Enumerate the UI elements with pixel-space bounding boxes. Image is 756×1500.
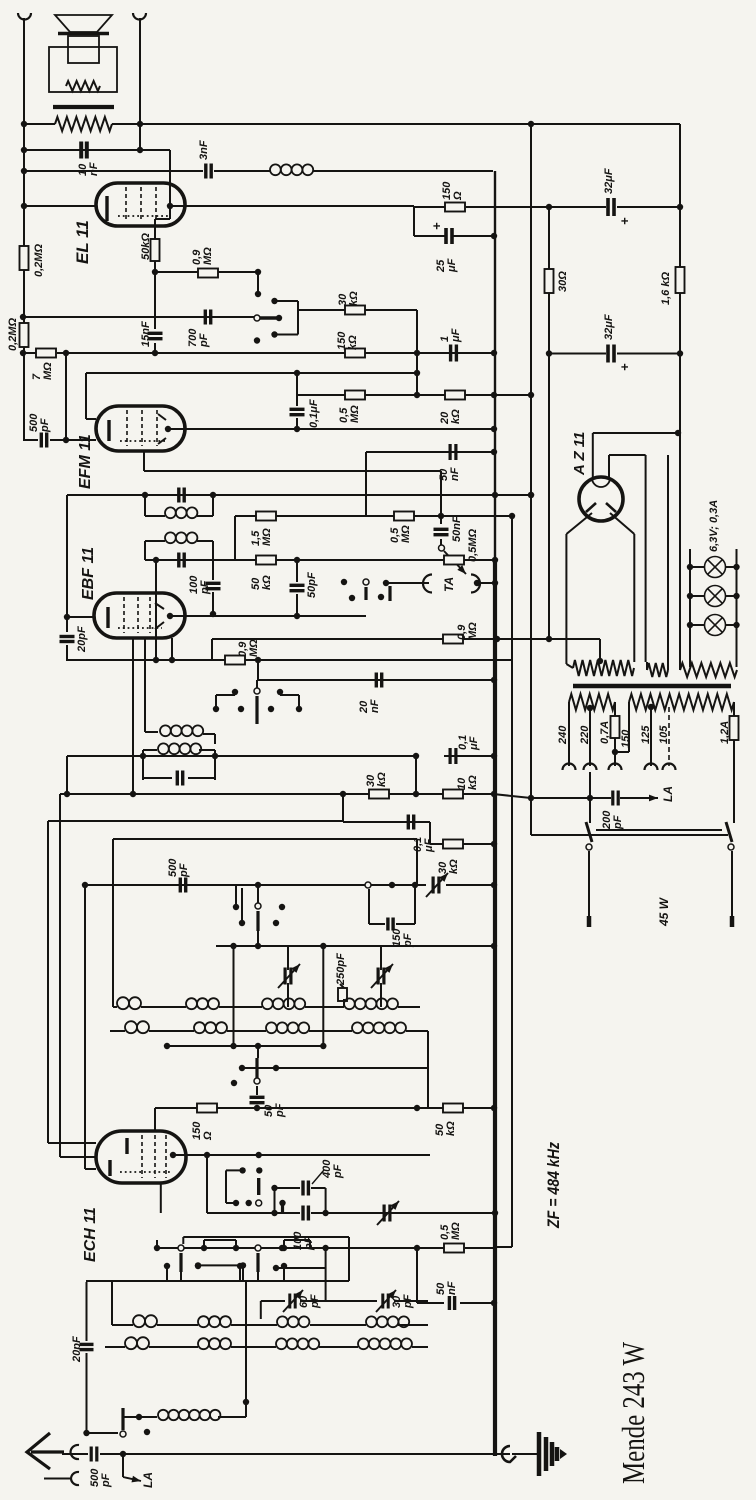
junction y150 [21, 147, 27, 153]
wire mains transformer core [573, 684, 731, 689]
field coil box [49, 47, 117, 92]
wire 274 stub [274, 1188, 276, 1213]
wire 0,9M-b drop x258 [257, 660, 259, 680]
svg-text:nF: nF [449, 467, 461, 481]
wire winding left ends [568, 702, 570, 766]
wire riser x417 top [416, 839, 418, 885]
lamp rail left [689, 549, 691, 667]
wire EFM pins drop [143, 451, 145, 471]
wire 200pF row y798 [493, 794, 531, 798]
wire EBF grid drop x67 [66, 495, 68, 632]
svg-text:+: + [617, 363, 632, 371]
junction EBF grid [64, 614, 70, 620]
wire 0,9M-b row y639 [212, 638, 444, 640]
wire osc coil row y1417 [123, 1416, 157, 1418]
junction y171 [21, 168, 27, 174]
IF2 cap wires [143, 777, 172, 779]
EBF11 diode strokes [155, 603, 164, 609]
capacitor 500pF-b [180, 878, 185, 893]
variable capacitor trim-a [433, 877, 439, 894]
tube ECH11 [96, 1131, 186, 1183]
svg-text:0,2MΩ: 0,2MΩ [7, 318, 19, 351]
junction TA [383, 580, 389, 586]
wire TA row y583 [386, 582, 429, 584]
svg-text:kΩ: kΩ [445, 1121, 457, 1136]
EFM11 cathode [107, 420, 110, 441]
wire 220 to switch [589, 772, 591, 823]
capacitor 700pF [205, 310, 210, 325]
mains switch lever right [726, 822, 732, 842]
svg-text:MΩ: MΩ [42, 362, 54, 380]
junction y353 [546, 350, 552, 356]
mains terminal 105 [663, 764, 676, 771]
ground jack [502, 1446, 516, 1462]
TA jack left [423, 575, 432, 593]
junction y429 bus [491, 426, 497, 432]
capacitor 50nF-a [450, 444, 456, 460]
svg-text:30Ω: 30Ω [557, 271, 569, 292]
wire EL11 grid row y206 [24, 205, 96, 207]
wire 50k anode jog [169, 206, 171, 219]
resistor 0,2M-2 [20, 323, 29, 347]
svg-text:TA: TA [442, 577, 456, 592]
wire top row y124 corner [679, 124, 681, 666]
EBF11 grids [123, 597, 125, 633]
IF2 capacitor [177, 771, 182, 786]
svg-text:1,2A: 1,2A [719, 721, 731, 744]
wire coil frame verts [112, 839, 114, 1007]
wire matrix risers x233 x323 [233, 946, 235, 1046]
resistor 50k-b [256, 556, 276, 565]
capacitor 50nF-b [434, 529, 449, 534]
AZ11 filament arc [592, 478, 610, 487]
wire x343 drop [342, 794, 344, 822]
switch S-if column x257 [256, 680, 258, 688]
wire 0,7A tap [614, 702, 616, 716]
junction y1213 bus [492, 1210, 498, 1216]
capacitor 3nF [206, 164, 211, 179]
dial lamp 2 [705, 586, 726, 607]
capacitor 50nF-c [449, 1296, 454, 1310]
svg-text:220: 220 [579, 725, 591, 745]
junction y452 bus [491, 449, 497, 455]
svg-text:3nF: 3nF [198, 140, 210, 160]
wire 500pF row y440 [23, 439, 38, 441]
wire y395 to line A [493, 394, 531, 396]
svg-text:MΩ: MΩ [467, 622, 479, 640]
wire x67 drop to 794 [66, 756, 68, 794]
junction x213 [210, 611, 216, 617]
wire y395 corner [547, 394, 549, 396]
switch S-ta extra contacts [341, 579, 347, 585]
wire 25uF loop [413, 207, 415, 236]
junction y124 [21, 121, 27, 127]
svg-text:MΩ: MΩ [202, 247, 214, 265]
capacitor 50pF-b [250, 1097, 265, 1102]
svg-text:125: 125 [640, 725, 652, 744]
capacitor 500pF-ant [91, 1447, 97, 1462]
capacitor 0,1uF-b [450, 748, 456, 764]
junction y433 [675, 430, 681, 436]
junction y395 bus [491, 392, 497, 398]
speaker terminal 2 [133, 13, 146, 20]
junction x531 [528, 492, 534, 498]
resistor 30ohm [545, 269, 554, 293]
junction y885 [82, 882, 88, 888]
wire EFM anode row y429 [168, 428, 493, 430]
svg-text:pF: pF [198, 333, 210, 348]
tap 220 [587, 705, 593, 711]
junction x417 [414, 370, 420, 376]
svg-text:150: 150 [620, 729, 632, 748]
ECH11 grids [141, 1135, 143, 1178]
tube EBF11 [94, 593, 185, 638]
wire 50pF drop [296, 560, 298, 582]
capacitor 20nF [376, 673, 381, 688]
bus chassis line x495 [494, 171, 496, 560]
svg-text:MΩ: MΩ [261, 528, 273, 546]
wire 30k row y794 [60, 793, 493, 795]
wire x213 drop [212, 560, 214, 580]
wire row y150 anode feedback [24, 149, 140, 151]
switch S-af bracket [275, 300, 299, 302]
resistor 150ohm [197, 1104, 217, 1113]
wire padder drop [343, 999, 345, 1007]
coil L4a [125, 1337, 149, 1349]
junction y1108 [254, 1105, 260, 1111]
variable capacitor trim-b [285, 968, 291, 985]
resistor 1,6k [676, 267, 685, 293]
svg-text:pF: pF [100, 1473, 112, 1488]
earth jack [71, 1472, 79, 1485]
capacitor 200pF [613, 791, 618, 806]
wire x430 drop [429, 822, 431, 844]
junction y885 bus [491, 882, 497, 888]
coil L3c [277, 1316, 309, 1327]
junction x297 y616 [294, 613, 300, 619]
wire riser x325 low [325, 1248, 327, 1268]
wire 50k row y272 [155, 271, 258, 273]
wire left rail x24 [23, 18, 25, 440]
IF2 primary pin drop x145 [144, 638, 146, 732]
resistor 50k-c [443, 1104, 463, 1113]
wire row y171 to bus [24, 170, 203, 172]
svg-text:Ω: Ω [202, 1131, 214, 1141]
tube EL11 [96, 183, 185, 226]
junction x258 [255, 269, 261, 275]
EL11 grids [125, 187, 127, 222]
svg-text:μF: μF [446, 258, 458, 273]
junction y660 [153, 657, 159, 663]
wire corner x512 row660 [511, 660, 513, 1247]
capacitor 20pF-a [60, 637, 75, 642]
resistor 20k [445, 391, 465, 400]
trimmer 30pF [383, 1294, 388, 1309]
wire EL11 anode row y206 right [170, 205, 414, 207]
junction y353 [20, 350, 26, 356]
wire anode riser x207 [206, 1155, 208, 1213]
svg-text:250pF: 250pF [335, 953, 347, 986]
wire 6V winding left [679, 666, 681, 670]
capacitor 500pF-a [41, 433, 46, 448]
coil L4c [276, 1338, 319, 1349]
junction y1046 [164, 1043, 170, 1049]
output transformer primary zigzag [55, 117, 112, 131]
resistor 30k-a [345, 306, 365, 315]
capacitor 32uF-a [608, 198, 614, 216]
EFM11 anode dot [165, 426, 171, 432]
coil L1a [117, 997, 141, 1009]
svg-text:50nF: 50nF [451, 516, 463, 542]
wire winding right end [733, 702, 735, 716]
resistor 0,9M-b [443, 635, 463, 644]
wire row y1046 [167, 1045, 323, 1047]
switch S1 wiper [365, 882, 371, 888]
pilot lamp winding [680, 663, 737, 677]
svg-text:pF: pF [612, 815, 624, 830]
loudspeaker LS [55, 15, 112, 63]
earth ground symbol [539, 1432, 557, 1476]
IF1 coil a [165, 507, 197, 518]
coil L1c [262, 998, 305, 1009]
wire 30ohm column x549 [548, 207, 550, 271]
junction antenna [120, 1451, 126, 1457]
resistor 0,5M-b [394, 512, 414, 521]
coil L2b [194, 1022, 227, 1033]
ECH11 anode dot [170, 1152, 176, 1158]
wire bottom row to ground [493, 1453, 510, 1455]
svg-text:45 W: 45 W [657, 896, 671, 927]
wire 400pF row y1188 [271, 1185, 277, 1191]
wire x155 to ECH [154, 1108, 156, 1131]
junction x512 top [509, 513, 515, 519]
wire coil row1 links [113, 1006, 117, 1008]
wire 500pF row y885 [85, 884, 365, 886]
wire diode drop x172 [171, 638, 173, 660]
wire 700pF row y317 [23, 316, 254, 318]
wire matrix risers a [156, 1240, 158, 1248]
capacitor 20pF-b [80, 1344, 94, 1349]
wire riser x417 low [416, 1248, 418, 1303]
wire S4 links [156, 1240, 158, 1248]
svg-text:ECH 11: ECH 11 [82, 1207, 99, 1262]
mains primary winding left [569, 694, 615, 710]
wire row y1237 [183, 1236, 349, 1238]
switch S-osc bracket [226, 1169, 243, 1171]
wire row y1301 [261, 1300, 285, 1302]
junction y1248 [414, 1245, 420, 1251]
wire EBF anode row y616 [170, 615, 213, 617]
svg-text:6,3V; 0,3A: 6,3V; 0,3A [708, 500, 720, 552]
resistor 0,2M-1 [20, 246, 29, 270]
fuse 0,7A [611, 716, 620, 738]
capacitor 1uF [451, 345, 457, 362]
coil L1b [186, 998, 219, 1009]
wire riser x325 to 1301 [325, 1268, 327, 1301]
wire EBF pin drop x133 [132, 638, 134, 794]
capacitor 32uF-b [608, 345, 614, 363]
svg-text:pF: pF [402, 1294, 414, 1309]
EFM11 dotted electrode [120, 440, 165, 442]
svg-text:0,7A: 0,7A [599, 721, 611, 744]
wire x417 row839-878 [416, 839, 418, 878]
variable capacitor trim-c [378, 968, 384, 985]
variable capacitor trim-d [384, 1205, 390, 1222]
coil L1d [344, 998, 398, 1009]
capacitor 50pF [290, 585, 305, 590]
wire trim-c drops [380, 946, 382, 970]
resistor 7M [36, 349, 56, 358]
wire earth stub [44, 1478, 71, 1480]
junction y1303 bus [491, 1300, 497, 1306]
wire terminal2 drop x140 [139, 18, 141, 150]
capacitor 100pF [206, 583, 221, 588]
wire 0,9M-a row y660 [66, 659, 512, 661]
wire row 516 to x512 [441, 515, 512, 517]
junction y206 [21, 203, 27, 209]
svg-text:50kΩ: 50kΩ [140, 233, 152, 260]
wire 20nF row y680 [257, 679, 493, 681]
svg-text:nF: nF [369, 699, 381, 713]
antenna jack [71, 1445, 80, 1459]
wire ECH triode grid pin [160, 1183, 162, 1213]
dial lamp 1 [705, 557, 726, 578]
svg-text:20pF: 20pF [71, 1336, 83, 1363]
EL11 dotted electrode [118, 215, 168, 217]
lamp rail right [736, 549, 738, 667]
wire riser x325 [325, 1188, 327, 1213]
wire left drop x48 [47, 821, 49, 1143]
svg-text:pF: pF [274, 1103, 286, 1118]
junction y794 [64, 791, 70, 797]
svg-text:LA: LA [141, 1472, 155, 1488]
junction 20pF-b [83, 1430, 89, 1436]
svg-text:A Z 11: A Z 11 [571, 432, 588, 476]
ECH11 dotted electrode [120, 1171, 170, 1173]
switch S2 column x258 [255, 903, 261, 909]
resistor 30k-c [443, 840, 463, 849]
choke coil L-af [270, 164, 313, 175]
EBF11 dotted electrode [118, 627, 162, 629]
capacitor 100pF-b [303, 1206, 308, 1221]
wire 0,5M-c row y1248 [157, 1247, 444, 1249]
wire AZ heater ends [646, 662, 648, 670]
wire riser coils3 [111, 1282, 113, 1325]
coil L3d [366, 1316, 409, 1327]
tube AZ11 envelope [579, 477, 623, 521]
IF2 secondary coil [158, 743, 201, 754]
potentiometer 0,5M wiper arrow [444, 551, 466, 574]
svg-text:50pF: 50pF [306, 572, 318, 598]
wire AZ filament right lead [608, 455, 610, 478]
coil L4b [198, 1338, 231, 1349]
wire 20pF to row660 [66, 645, 68, 660]
wire 15nF drop [154, 272, 156, 329]
junction 50k [152, 269, 158, 275]
switch S4 row contacts [154, 1245, 160, 1251]
wire row y353 long [23, 352, 36, 354]
wire riser x366 [365, 452, 367, 516]
coil L3a [133, 1315, 157, 1327]
wire corner x260 to coil3 [260, 1301, 262, 1319]
wire riser x416 [415, 756, 417, 794]
wire left drop x85 [84, 885, 86, 1169]
svg-text:32μF: 32μF [603, 168, 615, 194]
wire 50k row y560 [145, 559, 493, 561]
arrow LA right [630, 797, 658, 799]
EFM11 target strokes [158, 414, 166, 420]
svg-text:ZF = 484 kHz: ZF = 484 kHz [545, 1141, 563, 1228]
wire 30k row y310 [298, 309, 417, 311]
trimmer 60pF [290, 1294, 295, 1309]
wire x512 line [511, 516, 513, 1247]
AZ heater winding [647, 663, 668, 677]
IF1 capacitor b [179, 553, 184, 568]
switch S-ta [363, 579, 369, 585]
wire ground stub [512, 1453, 539, 1455]
wire y616 right [213, 615, 297, 617]
svg-text:EFM 11: EFM 11 [77, 434, 94, 489]
EFM11 grids [126, 410, 128, 446]
wire S2 drop [257, 885, 259, 903]
wire AZ filament row y433 [593, 432, 678, 434]
resistor 50k [151, 239, 160, 261]
svg-text:pF: pF [178, 863, 190, 878]
wire AZ filament left drop [592, 433, 594, 477]
wire row y516 [235, 515, 441, 517]
wire AVC row y756 [67, 755, 143, 757]
wire 150ohm row y1108 [155, 1107, 444, 1109]
svg-text:pF: pF [332, 1164, 344, 1179]
osc coil L5 [158, 1410, 220, 1420]
svg-text:MΩ: MΩ [450, 1222, 462, 1240]
wire riser x246 long [245, 1281, 247, 1402]
wire y821 row [48, 820, 343, 822]
speaker terminal 1 [18, 13, 31, 20]
output transformer core [53, 105, 114, 109]
IF2 secondary loop [142, 750, 144, 780]
svg-text:Ω: Ω [452, 191, 464, 201]
capacitor 15nF [148, 333, 163, 338]
svg-text:nF: nF [446, 1281, 458, 1295]
svg-text:MΩ: MΩ [349, 405, 361, 423]
mains terminal 150 [609, 764, 622, 771]
resistor 150k [345, 349, 365, 358]
resistor 0,9M-a2 [225, 656, 245, 665]
wire 250pF row y946 [216, 945, 493, 947]
mains primary winding right [629, 694, 734, 710]
resistor 1,5M [256, 512, 276, 521]
wire coil row3 links [112, 1324, 133, 1326]
svg-text:0,1μF: 0,1μF [308, 399, 320, 428]
wire 50nF row y452 [366, 451, 493, 453]
wire row y1068 [242, 1067, 428, 1069]
capacitor 25uF [446, 228, 452, 244]
HV centre tap [597, 658, 603, 664]
wire B+ row y124 [24, 123, 55, 125]
wire 1,2A down [733, 740, 735, 823]
junction y236 bus [491, 233, 497, 239]
junction y680 bus [491, 677, 497, 683]
wire 30k-c row y844 [430, 843, 493, 845]
junction y844 bus [491, 841, 497, 847]
coil L2c [266, 1022, 309, 1033]
fuse 1,2A [730, 716, 739, 740]
wire riser x235 [234, 516, 236, 560]
capacitor 150pF [368, 889, 370, 924]
svg-text:kΩ: kΩ [348, 291, 360, 306]
capacitor 0,1uF-a [290, 409, 305, 414]
